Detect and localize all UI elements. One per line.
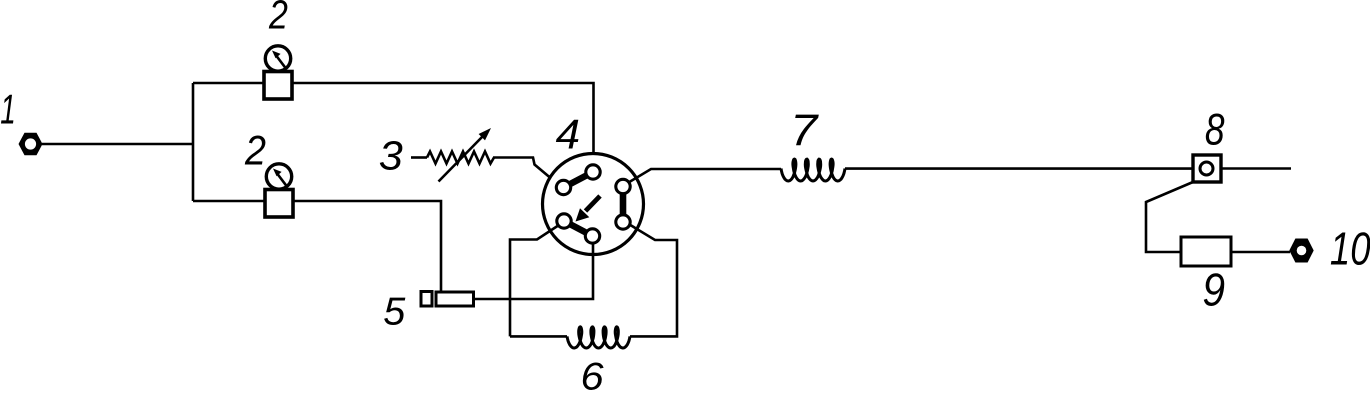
wire: valve upper-right port to column line — [629, 169, 782, 183]
wire: gauge 2a to downcomer into valve top port — [292, 83, 594, 166]
regulator 2b: gauge needle — [278, 174, 287, 186]
wire: valve bottom port down then left to injector 5 — [474, 242, 593, 299]
rotor bar: upper-right to lower-right — [620, 187, 627, 223]
wire: detector 8 split down-left to flow meter 9 — [1146, 182, 1193, 252]
valve rotor direction arrow — [576, 196, 601, 222]
svg-text:1: 1 — [0, 86, 16, 133]
coil 7 (column coil) — [781, 159, 845, 181]
wire: valve lower-left port to sample loop left side — [510, 226, 558, 336]
node: valve body circle — [543, 154, 644, 255]
wire: top branch to gauge 2a — [193, 82, 264, 85]
regulator 2b: square body — [265, 190, 293, 218]
svg-text:3: 3 — [379, 133, 403, 179]
svg-text:8: 8 — [1205, 103, 1225, 154]
resistor-style zigzag of restrictor 3 — [427, 152, 494, 164]
svg-text:2: 2 — [244, 128, 266, 174]
valve port (lower-left) — [557, 214, 571, 228]
regulator 2b: gauge circle — [266, 164, 291, 189]
regulator 2a: gauge needle — [277, 56, 286, 68]
wire: coil 7 to detector 8 — [845, 167, 1193, 170]
svg-text:6: 6 — [581, 354, 605, 392]
rotor bars inside valve 4 — [564, 172, 624, 236]
wire: sample loop bottom right and right side up — [630, 225, 678, 337]
wire: gauge 2b to vertical drop toward injector 5 — [291, 201, 441, 292]
wire: detector 8 outlet to the right — [1221, 167, 1291, 170]
detector 8: inner circle — [1200, 162, 1213, 175]
restrictor 3: variable arrow — [439, 128, 492, 182]
svg-text:4: 4 — [556, 111, 580, 158]
wire: restrictor 3 to valve upper-left port — [493, 158, 560, 186]
valve port (lower-right) — [616, 215, 630, 229]
wire: inlet from terminal 1 to branch point — [42, 143, 193, 146]
valve port (top) — [586, 165, 600, 179]
wire: flow meter 9 to terminal 10 — [1231, 251, 1290, 254]
regulator 2a: gauge circle — [265, 46, 290, 71]
svg-text:10: 10 — [1330, 222, 1370, 274]
injector 5: plunger cap — [421, 292, 432, 307]
wire: sample loop bottom left segment — [510, 335, 567, 338]
rotor bar: lower-left to bottom — [564, 221, 593, 236]
detector 8: square body — [1193, 155, 1221, 182]
wire: restrictor 3 lead-in — [411, 156, 427, 159]
valve port (upper-left) — [556, 180, 570, 194]
flow meter 9: rectangle — [1181, 237, 1231, 266]
valve port (bottom) — [585, 229, 599, 243]
svg-text:2: 2 — [268, 0, 288, 37]
svg-text:5: 5 — [383, 290, 405, 334]
coil 6 (sample loop coil) — [567, 327, 630, 348]
regulator 2a: square body — [264, 72, 292, 100]
injector 5: barrel — [436, 292, 474, 306]
wire: bottom branch to gauge 2b — [193, 200, 265, 203]
valve port (upper-right) — [616, 179, 630, 193]
wire: branch vertical — [192, 83, 195, 201]
terminal 10: hex nut — [1289, 239, 1313, 263]
svg-text:7: 7 — [790, 105, 819, 155]
rotor bar: upper-left to top — [564, 172, 594, 188]
svg-text:9: 9 — [1202, 264, 1225, 316]
terminal 1: hex nut — [19, 133, 43, 156]
